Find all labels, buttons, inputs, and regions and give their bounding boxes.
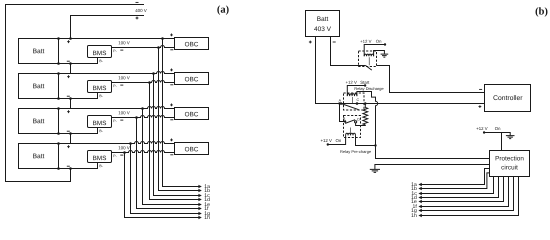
label minus near Batt2: [67, 95, 70, 97]
label minus near Batt4: [67, 165, 70, 167]
wire 1h to protection circuit: [418, 177, 518, 218]
junction bus tap row4 P-: [123, 151, 126, 154]
blade of main relay contact On: [366, 66, 372, 71]
label minus near BMS4 P-: [120, 154, 123, 156]
battery Batt3: [19, 109, 59, 134]
signal label +12 V precharge: [321, 139, 332, 142]
junction series link row2: [69, 97, 72, 100]
wire Batt1 plus to OBC1: [59, 38, 175, 40]
node label 1b left: [205, 188, 210, 192]
battery Batt4: [19, 144, 59, 169]
signal label Start: [360, 81, 369, 84]
signal dot +12V protection: [483, 131, 485, 133]
node label 1a right: [411, 182, 416, 186]
net label 400 V: [135, 9, 146, 12]
resistor R pre-charge: [363, 104, 368, 125]
label plus at OBC3 input: [170, 104, 173, 107]
wire Batt2 minus to BMS2 B-: [59, 93, 98, 99]
signal dot +12V precharge: [327, 143, 329, 145]
Relay Pre-charge coil: [346, 133, 356, 135]
Relay Discharge actuator link: [351, 97, 353, 103]
junction contact A: [340, 102, 343, 105]
label minus at OBC3 input: [170, 119, 173, 121]
OBC1 box: [175, 38, 209, 50]
pin label A: [339, 99, 341, 101]
node label 1c right: [412, 191, 417, 195]
battery Batt1: [19, 39, 59, 64]
node label 1e left: [205, 202, 210, 206]
pin label B- of BMS1: [100, 60, 103, 62]
wire 1d to protection circuit: [418, 177, 498, 200]
junction bus tap row1 plus: [161, 37, 164, 40]
node label 1d left: [205, 197, 210, 201]
battery Batt2: [19, 74, 59, 99]
junction Batt4 minus corner: [57, 167, 60, 170]
node label 1f right: [413, 204, 417, 208]
label minus near BMS3 P-: [120, 119, 123, 121]
wire 1g to protection circuit: [418, 177, 513, 213]
wire main relay output to controller minus: [377, 66, 485, 93]
junction Batt4 plus corner: [57, 142, 60, 145]
label minus at OBC1 input: [170, 49, 173, 51]
wire Batt3 plus to OBC3: [59, 107, 175, 109]
junction Batt1 plus corner: [57, 37, 60, 40]
wire 1b to protection circuit: [418, 173, 489, 190]
junction series link row3: [69, 132, 72, 135]
label minus near Batt3: [67, 130, 70, 132]
pin label B- of BMS2: [100, 95, 103, 97]
wire +12V On to precharge coil: [328, 135, 346, 144]
node label 1a left: [205, 184, 210, 188]
label minus at OBC2 input: [170, 84, 173, 86]
BMS3 box: [88, 116, 112, 128]
relay label Relay Discharge: [355, 87, 384, 91]
pin label P- of BMS1: [113, 50, 116, 52]
net label 100 V row4: [119, 146, 130, 149]
wire bus 1f from row3 P- to arrow 1f: [137, 118, 202, 211]
label minus near BMS1 P-: [120, 49, 123, 51]
wire bus 1h from row4 P- to arrow 1h: [125, 153, 202, 220]
wire Batt plus tap to contact B: [340, 104, 346, 122]
Relay Pre-charge dashed box: [344, 116, 361, 138]
relay label Relay Pre-charge: [340, 150, 371, 154]
pin label P- of BMS3: [113, 120, 116, 122]
wire +12V On to protection circuit: [484, 133, 501, 151]
pin label D: [358, 118, 360, 120]
wire BMS3 P- to OBC3: [112, 116, 175, 118]
signal label +12 V discharge relay: [346, 81, 357, 84]
OBC2 box: [175, 73, 209, 85]
node label 1e right: [411, 199, 416, 203]
label plus near Batt3: [67, 110, 70, 113]
Relay Discharge coil: [347, 94, 357, 96]
ground main relay coil: [381, 54, 389, 57]
junction contact C: [356, 102, 359, 105]
net label 100 V row3: [119, 111, 130, 114]
wire 1a to protection circuit: [418, 169, 489, 187]
wire 400V negative bus (outer loop from Batt4 minus): [6, 5, 145, 182]
signal label +12 V main relay: [360, 40, 371, 43]
pin label B: [343, 117, 345, 119]
wire +12V to main relay coil: [364, 45, 385, 57]
label minus at controller input: [479, 88, 482, 90]
pin label B- of BMS3: [100, 130, 103, 132]
node label 1g right: [411, 208, 416, 213]
wire precharge coil return to protection bus: [356, 135, 376, 145]
junction coil return precharge join: [374, 144, 376, 146]
wire series link Batt3 minus to Batt4 plus: [70, 134, 72, 144]
wire main relay coil to ground: [374, 51, 385, 57]
label minus at OBC4 input: [170, 154, 173, 156]
wire ground reference to protection circuit: [375, 165, 490, 170]
junction bus tap row2 plus: [152, 72, 155, 75]
wire Batt3 minus to BMS3 B-: [59, 128, 98, 134]
junction Batt1 minus corner: [57, 62, 60, 65]
wire bus 1b from row1 P- to arrow 1b: [159, 48, 202, 193]
wire Batt403V minus to main relay contact: [331, 37, 366, 66]
net label 100 V row2: [119, 76, 130, 79]
junction Batt3 minus corner: [57, 132, 60, 135]
wire 1e to protection circuit: [418, 177, 503, 204]
main relay actuator link: [368, 57, 370, 65]
battery Batt 403V box: [306, 11, 340, 37]
node label 1g left: [205, 211, 210, 216]
signal label +12 V protection: [476, 127, 487, 130]
label plus near Batt1: [67, 40, 70, 43]
label minus at Batt 403V: [333, 41, 336, 43]
wire Batt2 plus to OBC2: [59, 72, 175, 74]
label plus at OBC4 input: [170, 139, 173, 142]
wire bus 1d from row2 P- to arrow 1d: [150, 83, 202, 202]
node label 1b right: [411, 186, 416, 190]
signal label On precharge: [336, 139, 341, 142]
wire bus 1a from row1 plus to arrow 1a: [163, 39, 202, 189]
pin label P- of BMS4: [113, 155, 116, 157]
Relay Discharge dashed box: [344, 93, 365, 110]
node label 1c left: [205, 193, 210, 197]
label minus at 400V terminal: [136, 1, 139, 3]
wire +12V Start to discharge relay coil: [347, 86, 365, 96]
wire bus 1c from row2 plus to arrow 1c: [154, 74, 202, 198]
node label 1f left: [205, 206, 209, 210]
node label 1d right: [411, 195, 416, 199]
figure label (b): [536, 7, 548, 17]
wire bus 1g from row4 plus to arrow 1g: [131, 144, 202, 216]
wire BMS4 P- to OBC4: [112, 151, 175, 153]
pin label P- of BMS2: [113, 85, 116, 87]
protection circuit box: [490, 151, 530, 177]
wire 1f to protection circuit: [418, 177, 508, 209]
label plus at OBC1 input: [170, 34, 173, 37]
wire Batt4 plus to OBC4: [59, 142, 175, 144]
main relay coil: [364, 54, 373, 56]
junction bus tap row3 plus: [141, 107, 144, 110]
label plus near Batt2: [67, 75, 70, 78]
junction bus tap row2 P-: [148, 81, 151, 84]
net label 100 V row1: [119, 41, 130, 44]
label plus near Batt4: [67, 145, 70, 148]
junction Batt2 minus corner: [57, 97, 60, 100]
wire Batt4 minus to BMS4 B-: [59, 163, 98, 169]
wire Batt403V plus to relay A and controller plus: [316, 37, 485, 104]
label minus near BMS2 P-: [120, 84, 123, 86]
label minus near Batt1: [67, 60, 70, 62]
signal label On main relay: [376, 40, 381, 43]
blade of Relay Pre-charge contact: [345, 120, 355, 124]
Relay Pre-charge actuator link: [350, 128, 352, 135]
label plus at controller input: [479, 105, 482, 108]
label plus at OBC2 input: [170, 69, 173, 72]
OBC3 box: [175, 108, 209, 120]
ground symbol protection supply: [506, 136, 515, 139]
pin label B- of BMS4: [100, 165, 103, 167]
junction resistor top: [364, 102, 366, 104]
signal dot On main relay: [384, 43, 386, 45]
junction tap B: [338, 102, 340, 104]
wire series link Batt1 minus to Batt2 plus: [70, 64, 72, 74]
figure label (a): [217, 5, 228, 15]
label plus at Batt 403V: [309, 41, 312, 44]
junction series link row1: [69, 62, 72, 65]
wire contact D to resistor bottom: [356, 123, 366, 126]
node label 1h right: [411, 213, 416, 217]
junction bus tap row3 P-: [135, 116, 138, 119]
signal label On protection: [495, 127, 500, 130]
label plus at 400V terminal: [136, 17, 139, 20]
wire Batt1 minus to BMS1 B-: [59, 58, 98, 64]
ground symbol protection reference: [370, 169, 380, 172]
OBC4 box: [175, 143, 209, 155]
junction Batt4 minus to outer loop: [69, 167, 72, 170]
BMS2 box: [88, 81, 112, 93]
wire BMS2 P- to OBC2: [112, 81, 175, 83]
pin label C: [357, 98, 359, 101]
wire 400V positive bus to Batt1 plus: [71, 16, 145, 39]
signal dot Start: [364, 84, 366, 86]
node label 1h left: [205, 215, 210, 219]
blade of Relay Discharge contact: [341, 104, 359, 110]
wire discharge coil return to protection circuit: [357, 92, 490, 159]
junction bus tap row1 P-: [157, 46, 160, 49]
BMS4 box: [88, 151, 112, 163]
junction Batt3 plus corner: [57, 107, 60, 110]
wire series link Batt2 minus to Batt3 plus: [70, 99, 72, 109]
contact D circle: [355, 121, 357, 123]
wire 1c to protection circuit: [418, 177, 493, 196]
wire protection +12V branch to ground: [502, 133, 511, 136]
junction bus tap row4 plus: [129, 142, 132, 145]
contact B dot: [344, 120, 346, 122]
junction Batt2 plus corner: [57, 72, 60, 75]
BMS1 box: [88, 46, 112, 58]
controller box: [485, 85, 531, 112]
wire BMS1 P- to OBC1: [112, 46, 175, 48]
junction 400V positive tap: [69, 37, 72, 40]
main relay dashed box: [359, 51, 377, 67]
wire bus 1e from row3 plus to arrow 1e: [143, 109, 202, 207]
